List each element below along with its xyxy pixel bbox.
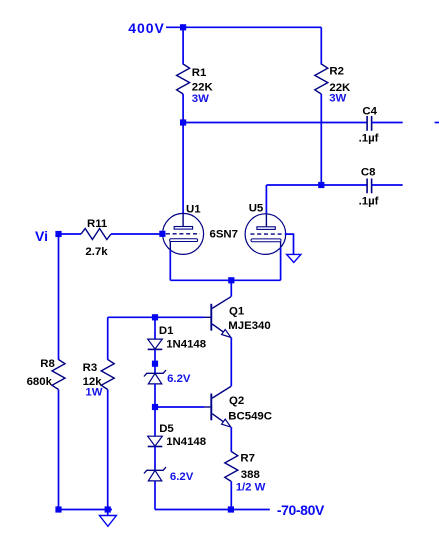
- resistor R7: [225, 452, 238, 482]
- wire Q1 emitter to Q2 collector: [230, 338, 232, 387]
- wire R11 to U1 grid: [111, 233, 162, 235]
- svg-text:R8: R8: [40, 358, 55, 370]
- junction node Vi: [55, 231, 61, 237]
- svg-text:3W: 3W: [192, 93, 209, 105]
- svg-text:2.7k: 2.7k: [85, 246, 108, 258]
- junction R8 bottom: [55, 506, 61, 512]
- diode D1: [148, 339, 163, 349]
- svg-text:6.2V: 6.2V: [167, 373, 191, 385]
- svg-text:680k: 680k: [27, 376, 53, 388]
- svg-text:6SN7: 6SN7: [210, 229, 239, 241]
- svg-text:C4: C4: [362, 105, 377, 117]
- wire bottom left rail: [59, 509, 113, 511]
- svg-text:D1: D1: [159, 325, 174, 337]
- svg-text:1W: 1W: [85, 387, 102, 399]
- svg-text:D5: D5: [159, 423, 174, 435]
- tube U5 plate: [265, 214, 267, 227]
- wire R2 bottom: [320, 94, 322, 185]
- wire U1 cathode down: [169, 250, 171, 280]
- resistor R11: [81, 229, 111, 240]
- svg-text:R3: R3: [83, 362, 98, 374]
- junction node R1 / C4 / U1 plate: [180, 119, 186, 125]
- wire D5 top: [154, 407, 156, 436]
- wire U5 plate top: [265, 185, 267, 214]
- svg-text:-70-80V: -70-80V: [277, 502, 325, 518]
- resistor R1: [177, 64, 190, 94]
- wire U1 plate top: [182, 123, 184, 214]
- wire bottom right rail: [155, 509, 270, 511]
- wire R3 top: [107, 317, 109, 360]
- wire R2 top drop: [320, 27, 322, 64]
- zener diode Z2 6.2V: [144, 467, 166, 481]
- svg-text:R1: R1: [192, 67, 207, 79]
- transistor Q2: [204, 386, 232, 427]
- svg-text:1N4148: 1N4148: [166, 338, 206, 350]
- resistor R2: [315, 64, 328, 94]
- tube U5 cathode: [251, 239, 281, 242]
- ground U5 grid: [287, 254, 301, 262]
- wire zener1 bottom: [154, 384, 156, 407]
- wire R7 bottom: [230, 482, 232, 510]
- wire cathode rail: [170, 279, 280, 281]
- svg-text:400V: 400V: [128, 20, 165, 36]
- capacitor C8: [367, 179, 372, 194]
- tube U1 plate: [182, 214, 184, 227]
- wire U5 cathode down: [280, 248, 282, 281]
- svg-text:1/2 W: 1/2 W: [236, 481, 266, 493]
- wire zener2 bottom: [154, 481, 156, 510]
- junction D1 / zener1: [152, 361, 158, 367]
- wire base row 1: [108, 316, 204, 318]
- junction node R2 / C8: [318, 182, 324, 188]
- junction D1 top: [152, 314, 158, 320]
- wire R3 bottom: [107, 390, 109, 510]
- svg-text:3W: 3W: [329, 93, 346, 105]
- wire C8 left: [266, 184, 367, 186]
- junction R7 bottom: [228, 506, 234, 512]
- svg-text:.1µf: .1µf: [359, 133, 379, 145]
- wire Vi to R11: [59, 233, 82, 235]
- svg-text:R11: R11: [87, 218, 108, 230]
- ground bottom left: [99, 510, 116, 527]
- wire C4 right: [372, 122, 403, 124]
- wire D1 top: [154, 317, 156, 339]
- wire C4 left: [183, 122, 367, 124]
- wire U5 grid to ground: [285, 234, 294, 254]
- wire D1 to zener1: [154, 349, 156, 373]
- svg-text:BC549C: BC549C: [228, 411, 272, 423]
- svg-text:U5: U5: [249, 203, 264, 215]
- wire top rail: [166, 26, 321, 28]
- wire C4 edge stub: [435, 122, 439, 124]
- svg-text:Vi: Vi: [35, 228, 48, 244]
- svg-text:U1: U1: [186, 203, 201, 215]
- svg-text:6.2V: 6.2V: [170, 471, 194, 483]
- wire R8 bottom: [58, 390, 60, 510]
- svg-text:C8: C8: [361, 167, 376, 179]
- svg-text:R2: R2: [329, 66, 344, 78]
- svg-text:MJE340: MJE340: [228, 320, 270, 332]
- diode D5: [148, 436, 163, 446]
- wire D5 to zener2: [154, 447, 156, 471]
- svg-text:22K: 22K: [192, 82, 214, 94]
- tube U5 grid: [250, 233, 284, 235]
- svg-text:Q1: Q1: [229, 306, 245, 318]
- svg-text:388: 388: [241, 469, 260, 481]
- junction U1 grid: [159, 231, 165, 237]
- capacitor C4: [367, 116, 372, 131]
- tube U1 cathode: [170, 239, 198, 242]
- wire R1 top: [182, 27, 184, 64]
- wire C8 right: [372, 184, 403, 186]
- tube U5 envelope: [245, 214, 286, 255]
- wire Q1 collector: [230, 280, 232, 296]
- tube U1 envelope: [163, 213, 204, 254]
- wire Vi down to R8: [58, 234, 60, 360]
- wire Q2 emitter: [230, 427, 232, 452]
- junction top rail R1: [180, 24, 186, 30]
- resistor R8: [52, 360, 65, 390]
- junction R3 bottom: [105, 506, 111, 512]
- resistor R3: [101, 360, 114, 390]
- svg-text:1N4148: 1N4148: [166, 436, 206, 448]
- svg-text:Q2: Q2: [229, 395, 244, 407]
- transistor Q1: [204, 297, 232, 338]
- junction cathode rail / Q1: [228, 277, 234, 283]
- svg-text:R7: R7: [240, 453, 255, 465]
- junction zener1 / D5 / Q2 base: [152, 404, 158, 410]
- wire base row 2: [155, 406, 204, 408]
- tube U1 grid: [166, 233, 200, 235]
- zener diode Z1 6.2V: [144, 370, 166, 384]
- wire R1 bottom: [182, 94, 184, 123]
- svg-text:.1µf: .1µf: [359, 195, 379, 207]
